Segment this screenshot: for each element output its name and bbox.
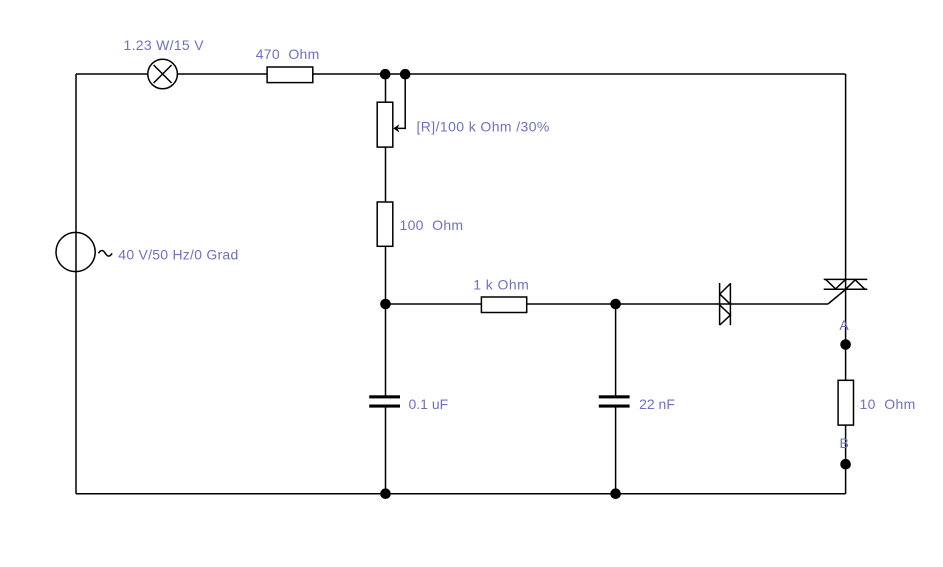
svg-text:A: A: [839, 317, 849, 333]
svg-text:0.1 uF: 0.1 uF: [409, 396, 449, 412]
svg-text:22 nF: 22 nF: [639, 396, 675, 412]
svg-text:[R]/100 k Ohm /30%: [R]/100 k Ohm /30%: [417, 119, 550, 135]
svg-text:1 k Ohm: 1 k Ohm: [473, 277, 529, 293]
svg-text:40 V/50 Hz/0 Grad: 40 V/50 Hz/0 Grad: [118, 247, 238, 263]
svg-text:1.23 W/15 V: 1.23 W/15 V: [124, 37, 205, 53]
svg-text:B: B: [840, 435, 849, 451]
svg-text:470 Ohm: 470 Ohm: [256, 46, 320, 62]
svg-text:10 Ohm: 10 Ohm: [860, 396, 916, 412]
svg-text:100 Ohm: 100 Ohm: [400, 217, 464, 233]
